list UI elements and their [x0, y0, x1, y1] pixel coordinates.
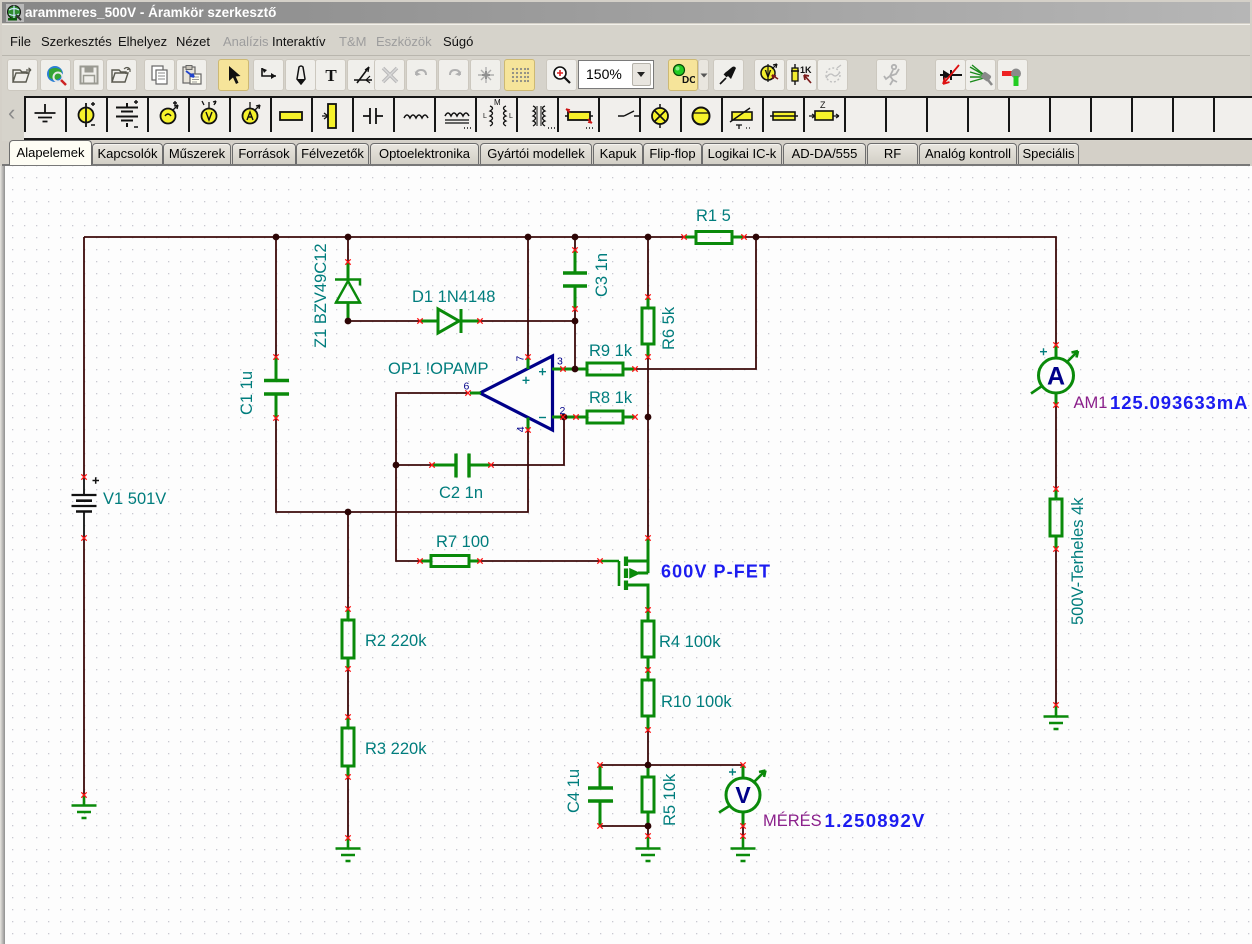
svg-text:C2 1n: C2 1n — [439, 484, 483, 502]
resistor R5 — [642, 765, 654, 826]
wire R1 right to ammeter — [744, 237, 1056, 345]
svg-text:R1 5: R1 5 — [696, 207, 731, 225]
wire pin7 riser — [527, 237, 529, 357]
trimmer resistor icon — [565, 109, 593, 128]
wire C2 left to output node — [396, 464, 432, 466]
wire opamp output to R7 — [396, 393, 468, 561]
svg-text:600V P-FET: 600V P-FET — [661, 562, 771, 582]
svg-text:3: 3 — [557, 356, 563, 368]
wire R6 to FET drain — [647, 357, 649, 538]
svg-text:Z1 BZV49C12: Z1 BZV49C12 — [312, 243, 330, 348]
svg-text:V: V — [735, 782, 751, 808]
motor icon — [693, 108, 710, 125]
resistor R4 — [642, 610, 654, 670]
wire R5 to ground — [647, 826, 649, 836]
svg-text:OP1 !OPAMP: OP1 !OPAMP — [388, 360, 489, 378]
svg-text:V1 501V: V1 501V — [103, 490, 166, 508]
battery icon — [116, 100, 138, 127]
ground G4 under voltmeter — [731, 837, 756, 861]
wire D1 to C3 node — [480, 320, 575, 322]
resistor R2 — [342, 609, 354, 669]
resistor R3 — [342, 717, 354, 777]
voltmeter plus marker — [729, 769, 736, 776]
svg-text:R8 1k: R8 1k — [589, 389, 633, 407]
resistor R7 — [420, 556, 480, 567]
op-amp OP1 — [470, 356, 587, 430]
svg-text:DC: DC — [682, 75, 695, 86]
svg-text:6: 6 — [464, 381, 470, 393]
svg-text:R2 220k: R2 220k — [365, 632, 427, 650]
wire battery to ground — [83, 538, 85, 795]
resistor R8 — [552, 411, 635, 423]
battery V1 — [72, 477, 100, 538]
resistor R9 — [552, 363, 635, 375]
svg-text:R5 10k: R5 10k — [661, 773, 679, 826]
wire R3 to ground — [347, 777, 349, 837]
svg-text:M: M — [494, 98, 501, 107]
svg-text:L: L — [509, 113, 513, 120]
svg-text:R9 1k: R9 1k — [589, 342, 633, 360]
wire R9 right to R1 node — [635, 238, 756, 369]
resistor R10 — [642, 670, 654, 730]
toolbar row 2: component palette — [2, 94, 1250, 141]
resistor R6 — [642, 297, 654, 357]
capacitor C3 — [563, 250, 587, 309]
resistor R1 — [684, 232, 744, 244]
svg-text:A: A — [1047, 363, 1065, 391]
wire Z1 to D1 — [348, 320, 420, 322]
wire load resistor to ground — [1055, 549, 1057, 705]
resistor icon — [280, 112, 302, 120]
wire C3 stub — [574, 237, 576, 250]
voltage source icon — [79, 102, 96, 127]
capacitor icon — [363, 108, 383, 124]
transformer icon — [533, 106, 555, 128]
svg-text:T: T — [325, 67, 337, 83]
svg-text:AM1: AM1 — [1074, 394, 1108, 412]
wire left rail top — [83, 237, 85, 477]
inductor with core icon — [445, 113, 471, 128]
wire C4 bottom rail — [600, 825, 648, 827]
wire voltmeter to ground — [742, 826, 744, 836]
capacitor C2 — [432, 454, 491, 478]
svg-text:4: 4 — [515, 426, 527, 432]
wire C3 to pin3 node — [574, 309, 576, 369]
wire R2 riser — [347, 512, 349, 609]
ground G1 left branch — [72, 795, 97, 818]
toolbar row 1 — [2, 55, 1250, 95]
wire R7 to FET gate — [480, 560, 600, 562]
wire C1 drop — [275, 237, 277, 357]
ground icon — [35, 104, 56, 122]
diode D1 — [420, 309, 480, 333]
zener diode Z1 — [335, 262, 361, 321]
inductor icon — [404, 115, 428, 118]
terminal x markers — [81, 234, 1058, 840]
ammeter AM1 — [1031, 345, 1078, 405]
svg-text:125.093633mA: 125.093633mA — [1110, 392, 1248, 413]
transformer M icon — [483, 98, 513, 126]
wire R2 to R3 — [347, 669, 349, 717]
wire Z1 stub — [347, 237, 349, 262]
generator icon — [161, 101, 179, 124]
wire R6 stub — [647, 237, 649, 297]
svg-text:MÉRÉS: MÉRÉS — [763, 811, 822, 830]
impedance Z icon — [809, 100, 839, 120]
svg-text:7: 7 — [515, 356, 527, 362]
svg-text:D1 1N4148: D1 1N4148 — [412, 288, 495, 306]
ground G5 right branch — [1044, 705, 1069, 729]
tab bar — [2, 140, 1250, 166]
capacitor C1 — [264, 357, 289, 418]
svg-text:L: L — [483, 113, 487, 120]
menu bar — [2, 24, 1250, 55]
wire R10 to measure rail — [647, 730, 649, 765]
component palette icons — [24, 96, 1252, 136]
ground G3 under R5 — [636, 837, 661, 861]
voltmeter MERES — [719, 765, 766, 826]
thermistor icon — [730, 108, 752, 129]
wire pin2 node to C2 right — [491, 417, 564, 465]
svg-text:1.250892V: 1.250892V — [825, 810, 926, 831]
svg-text:C1 1u: C1 1u — [238, 371, 256, 415]
mosfet Q1 600V P-FET — [600, 538, 648, 610]
resistor 500V-Terheles — [1050, 489, 1062, 549]
svg-text:2: 2 — [560, 405, 566, 417]
wire pin4 to C1 rail — [276, 418, 528, 512]
junction dots — [273, 234, 760, 830]
opamp input plus marker — [539, 368, 546, 375]
svg-text:R3 220k: R3 220k — [365, 740, 427, 758]
ground G2 under R3 — [336, 838, 361, 861]
window chrome — [2, 2, 1250, 23]
voltmeter icon — [202, 101, 217, 124]
ammeter plus marker — [1040, 348, 1047, 355]
ammeter icon — [243, 102, 261, 124]
svg-text:1K: 1K — [800, 65, 812, 75]
opamp minus marker — [539, 417, 546, 419]
capacitor C4 — [588, 765, 613, 826]
svg-text:R10 100k: R10 100k — [661, 693, 732, 711]
lamp icon — [652, 104, 668, 128]
potentiometer vertical icon — [322, 104, 336, 128]
svg-text:R7 100: R7 100 — [436, 533, 489, 551]
svg-text:C3 1n: C3 1n — [593, 253, 611, 297]
svg-text:500V-Terheles 4k: 500V-Terheles 4k — [1069, 497, 1087, 625]
svg-text:C4 1u: C4 1u — [565, 769, 583, 813]
wire top rail — [84, 236, 684, 238]
svg-text:R4 100k: R4 100k — [659, 633, 721, 651]
svg-text:Z: Z — [820, 100, 826, 110]
wire ammeter to load resistor — [1055, 405, 1057, 489]
opamp supply plus marker — [523, 377, 530, 384]
svg-text:R6 5k: R6 5k — [660, 306, 678, 350]
wire measure rail — [600, 764, 743, 766]
fuse icon — [770, 112, 798, 120]
switch icon — [618, 111, 640, 116]
